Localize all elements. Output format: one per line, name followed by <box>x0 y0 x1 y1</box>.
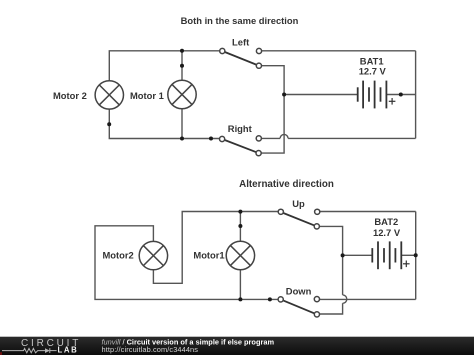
wire hop over vertical (top circuit) <box>280 134 288 138</box>
switch SW Right <box>220 123 262 156</box>
footer bar <box>0 337 474 355</box>
wire left switch bottom contact down to battery node <box>259 66 284 95</box>
svg-text:Right: Right <box>228 123 252 134</box>
terminal Left top contact <box>256 48 261 53</box>
node dot motor1 top rail (bottom) <box>238 210 242 214</box>
wire left switch top contact to right vertical <box>259 50 416 52</box>
terminal Down top contact <box>314 297 319 302</box>
wire down switch top contact to right vertical <box>317 298 416 300</box>
svg-text:Both in the same direction: Both in the same direction <box>181 15 299 26</box>
wire motor2 bottom loop to top rail (bottom circuit) <box>153 212 280 284</box>
lever Down <box>281 299 317 314</box>
svg-text:BAT2: BAT2 <box>374 216 398 227</box>
svg-text:Motor2: Motor2 <box>103 250 134 261</box>
node dot motor1 upper wire <box>180 64 184 68</box>
motor M1 (bottom circuit) <box>226 241 254 269</box>
terminal Right bottom contact <box>256 151 261 156</box>
motor M2 (top circuit) <box>95 81 123 109</box>
terminal Left bottom contact <box>256 63 261 68</box>
plus sign BAT1 <box>389 98 396 105</box>
wire after hop down to down switch bottom contact <box>317 303 343 314</box>
wire motor1 bottom (bottom circuit) <box>239 270 241 300</box>
wire top rail (top circuit) <box>109 51 222 81</box>
node dot battery plus (top) <box>399 93 403 97</box>
wire up switch top contact to right vertical <box>317 211 416 213</box>
switch SW Up <box>278 198 320 229</box>
plus sign BAT2 <box>403 261 410 268</box>
svg-text:Up: Up <box>292 198 305 209</box>
node dot battery minus (bottom) <box>341 253 345 257</box>
node dot bottom rail before down switch <box>268 297 272 301</box>
svg-text:Motor 2: Motor 2 <box>53 90 87 101</box>
wire motor1 top (top circuit) <box>181 51 183 81</box>
terminal Up bottom contact <box>314 224 319 229</box>
logo schematic line with resistor and diode <box>2 348 57 353</box>
battery BAT1 <box>358 81 387 109</box>
terminal Left common <box>220 48 225 53</box>
junction dots (bottom circuit) <box>238 210 417 302</box>
wire right switch top contact rail with hop <box>259 137 280 139</box>
node dot motor1 bottom rail <box>180 137 184 141</box>
wire motor1 bottom (top circuit) <box>181 109 183 139</box>
wire battery left (BAT2) <box>343 254 373 256</box>
node dot battery minus (top) <box>282 93 286 97</box>
node dot motor1 upper wire (bottom) <box>238 224 242 228</box>
wire hop over horizontal (bottom circuit) <box>343 295 347 303</box>
wire battery node down to hop (bottom circuit) <box>342 255 344 295</box>
lever Right <box>222 139 259 153</box>
svg-text:12.7 V: 12.7 V <box>359 66 387 77</box>
wire right vertical (bottom circuit) <box>415 212 417 300</box>
logo red mark <box>0 352 2 355</box>
node dot motor2 lower wire <box>107 122 111 126</box>
node dot motor1 top rail <box>180 49 184 53</box>
junction dots (top circuit) <box>107 49 403 141</box>
terminal Up common <box>278 209 283 214</box>
wire battery left (BAT1) <box>284 94 358 96</box>
node dot motor1 bottom rail (bottom) <box>238 297 242 301</box>
wire right vertical (top circuit) <box>415 51 417 139</box>
svg-text:LAB: LAB <box>58 345 79 354</box>
wire up switch bottom contact down to battery node <box>317 226 343 255</box>
node dot battery plus (bottom) <box>414 253 418 257</box>
lever Left <box>222 51 259 66</box>
wire battery right (BAT1) <box>386 94 415 96</box>
svg-text:12.7 V: 12.7 V <box>373 227 401 238</box>
terminal Down bottom contact <box>314 312 319 317</box>
wire motor2 top loop to bottom rail (bottom circuit) <box>95 226 281 300</box>
wire battery node down to right switch bottom contact <box>259 95 285 154</box>
svg-text:Alternative direction: Alternative direction <box>239 179 334 190</box>
switch SW Down <box>278 286 319 318</box>
lever Up <box>281 212 317 226</box>
motor M1 (top circuit) <box>168 80 196 108</box>
terminal Right top contact <box>256 136 261 141</box>
switch SW Left <box>220 37 262 69</box>
terminal Down common <box>278 297 283 302</box>
battery BAT2 <box>372 241 401 269</box>
terminal Right common <box>220 136 225 141</box>
svg-text:http://circuitlab.com/c3444ns: http://circuitlab.com/c3444ns <box>102 345 199 354</box>
node dot bottom rail before right switch <box>209 137 213 141</box>
terminal Up top contact <box>315 209 320 214</box>
motor M2 (bottom circuit) <box>139 241 167 269</box>
svg-text:Motor 1: Motor 1 <box>130 90 164 101</box>
svg-text:Down: Down <box>286 286 312 297</box>
wire battery right (BAT2) <box>401 254 415 256</box>
svg-text:Left: Left <box>232 37 249 48</box>
wire motor2 bottom + bottom rail (top circuit) <box>109 109 222 138</box>
svg-text:Motor1: Motor1 <box>193 250 224 261</box>
wire motor1 top (bottom circuit) <box>239 212 241 242</box>
